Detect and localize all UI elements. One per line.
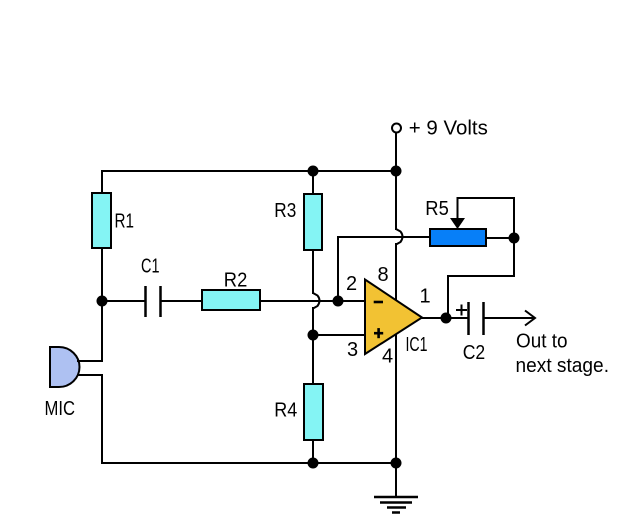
wire feedback row: to R5 left end (passes under hop at +9V column) <box>337 236 431 238</box>
svg-text:R2: R2 <box>224 270 248 292</box>
+9V terminal circle <box>392 124 401 133</box>
svg-text:4: 4 <box>382 346 393 368</box>
wire top rail from R1 column to +9V column <box>101 170 397 172</box>
wire hop where +9V column crosses feedback row <box>396 229 403 245</box>
svg-text:R3: R3 <box>274 200 296 222</box>
node dot output <box>441 313 452 324</box>
op-amp IC1 triangle <box>365 280 422 355</box>
wire R3 column upper: top rail to R3 <box>312 170 314 294</box>
wire non-inverting input row: R4 top node to op-amp <box>313 334 365 336</box>
wire output: apex to C2 left plate <box>421 317 468 319</box>
svg-text:C2: C2 <box>463 342 486 364</box>
svg-text:Out to: Out to <box>516 331 568 353</box>
wire bottom rail <box>101 462 397 464</box>
node C: R1/C1/MIC signal junction <box>97 296 108 307</box>
R5 wiper arrow <box>450 218 465 229</box>
node F: R5 right end junction <box>509 233 520 244</box>
wire ground stub <box>395 462 397 497</box>
wire R4 column: hop down to bottom rail (through R4) <box>312 307 314 464</box>
resistor R3 <box>304 194 322 250</box>
potentiometer R5 body <box>430 229 486 246</box>
svg-text:R4: R4 <box>274 400 297 422</box>
node B: +9V top rail junction <box>391 166 402 177</box>
wire +9V column: terminal to top rail <box>395 132 397 172</box>
svg-text:next stage.: next stage. <box>516 355 610 377</box>
wire R5 wiper loop: arrow up, across, down to right end node <box>458 198 515 238</box>
wire MIC upper terminal stub <box>77 360 103 362</box>
wire +9V column: top rail down to hop <box>395 171 397 230</box>
svg-text:+ 9 Volts: + 9 Volts <box>409 118 488 140</box>
node E: non-inverting input / R4 top junction <box>308 330 319 341</box>
node A: R3 top rail junction <box>308 166 319 177</box>
capacitor C2 <box>469 302 484 335</box>
wire MIC column upper: signal node down to upper stub <box>101 300 103 362</box>
wire signal row: C1 right plate to op-amp inverting input (passes under R2 and hop) <box>161 300 365 302</box>
capacitor C1 <box>146 286 161 317</box>
ground symbol <box>374 497 418 513</box>
svg-text:IC1: IC1 <box>406 334 428 356</box>
wire signal row: node to C1 left plate <box>101 300 145 302</box>
wire +9V column: hop down to op-amp V+ edge (pin 8) <box>395 243 397 302</box>
node G: R4 bottom rail junction <box>308 458 319 469</box>
svg-text:R5: R5 <box>425 198 449 220</box>
wire op-amp pin 4 down to ground rail <box>395 330 397 464</box>
svg-text:2: 2 <box>346 273 357 295</box>
output arrowhead <box>525 311 535 326</box>
svg-text:MIC: MIC <box>45 398 76 420</box>
resistor R4 <box>304 384 323 440</box>
resistor R1 <box>92 193 111 248</box>
svg-text:1: 1 <box>420 286 431 308</box>
wire MIC lower terminal stub <box>77 374 103 376</box>
resistor R2 <box>202 290 260 310</box>
wire output to arrow <box>484 317 534 319</box>
node D: inverting input junction <box>333 296 344 307</box>
C2 polarity plus sign <box>456 305 467 316</box>
svg-text:R1: R1 <box>115 211 135 233</box>
wire hop where R3-R4 column crosses signal row <box>313 293 320 309</box>
op-amp inverting minus sign <box>374 301 383 304</box>
microphone MIC body <box>50 347 80 387</box>
svg-text:C1: C1 <box>141 256 160 278</box>
node H: ground rail junction <box>391 458 402 469</box>
wire feedback vertical: inverting node up to feedback row <box>337 236 339 301</box>
wire MIC column lower: lower stub down to bottom rail <box>101 374 103 464</box>
svg-text:8: 8 <box>378 264 389 286</box>
wire R1 column: top rail down to signal node <box>101 170 103 301</box>
svg-text:3: 3 <box>347 339 358 361</box>
wire feedback return: R5 node down, left, down to output node <box>448 237 514 319</box>
op-amp non-inverting plus sign <box>374 328 383 338</box>
wire R5 right end to node <box>486 237 515 239</box>
